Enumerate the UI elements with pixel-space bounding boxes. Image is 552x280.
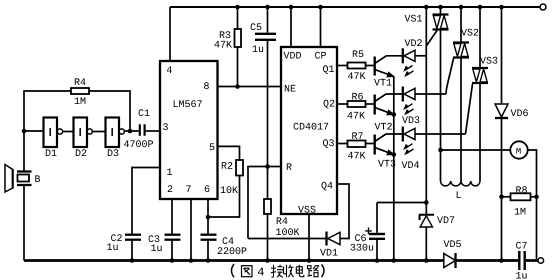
pin Q3 [323, 139, 334, 148]
wire pin6 down [207, 199, 209, 234]
thyristor VS2 [460, 7, 462, 43]
label C4 [223, 237, 234, 244]
resistor R2 [236, 160, 243, 176]
label CD4017 [294, 123, 329, 130]
resistor R3 [235, 29, 242, 47]
wire R3 to pin8 [237, 47, 239, 87]
node R3 top rail junction [235, 5, 240, 10]
caption 4 [258, 268, 264, 276]
wire pin4 of LM567 to top rail [169, 7, 171, 61]
op-amp U1 LM567 body [160, 61, 218, 199]
glyph 接 [271, 265, 283, 278]
wire pin7 down [190, 199, 192, 260]
label VT1 [374, 79, 392, 86]
wire C5 down long vertical [267, 41, 269, 199]
node bus top rail VS1 [438, 5, 443, 10]
transducer B [23, 131, 25, 171]
label 100K [276, 228, 299, 235]
glyph （ [232, 264, 235, 277]
label R3 [220, 31, 231, 38]
inverter D1 [44, 118, 58, 148]
wire B to ground rail [23, 186, 25, 261]
label VD7 [437, 216, 454, 223]
node VDD top rail junction [289, 5, 294, 10]
label VS1 [405, 15, 423, 22]
LED VD2 [402, 48, 404, 63]
wire D3 to C1 [124, 130, 138, 132]
pin 8 [204, 82, 209, 89]
resistor R7 [348, 141, 366, 148]
diode VD5 [444, 254, 456, 268]
wire CP [320, 7, 322, 47]
label C5 [251, 23, 262, 30]
label R4 100K [277, 217, 288, 224]
transistor VT2 [374, 95, 376, 115]
label VD2 [405, 39, 422, 46]
motor M [510, 141, 527, 158]
label 1u C5 [253, 45, 264, 52]
glyph 图 [242, 266, 253, 277]
node VS3 top rail junction [478, 5, 483, 10]
label C1 [139, 109, 150, 116]
label 47K R6 [348, 112, 366, 119]
pin NE [285, 85, 296, 92]
label C6 [355, 234, 366, 241]
capacitor C6 [376, 203, 378, 233]
label D2 [76, 149, 87, 156]
node coil/motor wire junction [438, 148, 443, 153]
node VD6 top rail junction [499, 5, 504, 10]
pin 5 [210, 143, 215, 150]
pin 7 [186, 185, 190, 192]
resistor R8 [499, 195, 504, 200]
capacitor C4 [201, 234, 217, 236]
wire emitter rail [393, 77, 395, 261]
label VD5 [444, 240, 461, 247]
node VT3 emitter junction [392, 152, 397, 157]
label R8 [516, 186, 527, 193]
glyph 收 [284, 265, 294, 278]
diode VD1 [325, 232, 327, 246]
thyristor VS3 [479, 7, 481, 68]
wire R2 to pin6 [208, 176, 240, 218]
label D3 [108, 149, 119, 156]
glyph 路 [308, 265, 319, 277]
label C3 [149, 235, 160, 242]
node gate bus top rail junction [424, 5, 429, 10]
label VD1 [320, 249, 338, 256]
label B [35, 175, 40, 182]
wire pin1 to C2 [132, 168, 160, 234]
wire pin8 to NE [218, 86, 284, 88]
wire VDD [290, 7, 292, 47]
wire C6 to bus junction [377, 202, 426, 204]
wire Q2 to R6 [337, 103, 348, 105]
label 1u C3 [151, 244, 162, 251]
label 1M [75, 97, 86, 104]
glyph ） [322, 265, 325, 278]
wire D1 to D2 [63, 131, 74, 133]
label 2200P [218, 247, 247, 254]
label LM567 [174, 100, 202, 107]
node D3 output junction [128, 129, 133, 134]
label 4700P [124, 140, 153, 147]
label L [457, 191, 461, 198]
resistor R4 100K [264, 199, 271, 214]
wire Q1 to R5 [337, 65, 348, 67]
capacitor C5 [255, 33, 276, 35]
label 10K [221, 186, 238, 193]
label C2 [111, 234, 122, 241]
label R6 [352, 93, 363, 100]
capacitor C1 [139, 124, 141, 136]
wire R pin [248, 167, 281, 239]
pin Q2 [324, 100, 335, 109]
pin R [287, 163, 292, 170]
wire R4 left to input [24, 91, 71, 131]
label VS3 [480, 57, 497, 64]
label C7 [516, 242, 527, 249]
glyph 电 [296, 265, 304, 277]
node CP top rail junction [318, 5, 323, 10]
resistor R4 [71, 88, 89, 94]
wire top rail [170, 6, 540, 8]
label 1u C7 [516, 272, 527, 279]
wire R4 feedback loop [89, 91, 130, 131]
terminal bottom-right [538, 258, 544, 264]
ground rail bottom [24, 259, 444, 262]
thyristor VS1 [440, 7, 442, 15]
label VT2 [375, 123, 392, 130]
pin Q1 [323, 65, 334, 74]
wire VD1 to Q4 [337, 184, 349, 239]
LED VD3 [402, 87, 404, 102]
label R5 [353, 50, 364, 57]
label 1M R8 [515, 208, 526, 215]
pin 6 [205, 185, 210, 192]
wire pin5 to R2 [218, 146, 240, 160]
label 330u [351, 244, 374, 251]
wire R3 stub [237, 7, 239, 29]
label 47K R5 [348, 72, 366, 79]
capacitor C7 [518, 251, 520, 270]
inductor L [440, 150, 442, 181]
label VS2 [461, 29, 478, 36]
label 47K R7 [348, 152, 366, 159]
transistor VT1 [374, 57, 376, 76]
LED VD4 [402, 127, 404, 142]
node C5 top rail junction [265, 5, 270, 10]
wire VS3 gate [466, 84, 473, 134]
wire VT1 collector row1 [386, 55, 402, 57]
wire VS1 gate [426, 31, 437, 47]
IC U2 CD4017 body [281, 47, 337, 214]
wire VSS down [308, 214, 310, 260]
pin 2 [168, 185, 173, 192]
label R2 [222, 162, 233, 169]
label VD4 [402, 161, 420, 168]
inverter D3 [106, 118, 120, 148]
node input junction [22, 129, 27, 134]
label R4 1M [75, 78, 86, 85]
pin 1 [167, 168, 172, 175]
wire C1 to pin3 [146, 130, 160, 132]
transistor VT3 [374, 135, 376, 155]
node pin6/R2 junction [206, 215, 211, 220]
diode VD6 [501, 7, 503, 104]
pin 4 [167, 66, 172, 73]
wire to motor [441, 149, 511, 151]
wire VD1 cathode line [248, 238, 327, 240]
wire pin2 down [171, 199, 173, 234]
caption 图4 接收电路 [232, 264, 325, 277]
capacitor C2 [125, 234, 141, 236]
label VT3 [378, 160, 395, 167]
capacitor C3 [165, 234, 181, 236]
node bus/C6/VD7 junction [424, 200, 429, 205]
wire gate bus vertical [425, 7, 427, 203]
node R/R4 junction [265, 164, 270, 169]
pin 3 [163, 123, 168, 130]
wire D2 to D3 [92, 131, 105, 133]
pin CP [315, 52, 326, 59]
label VD6 [511, 109, 528, 116]
pin VSS [298, 206, 316, 213]
label 47K R3 [215, 41, 233, 48]
inverter D2 [74, 118, 88, 148]
wire input to D1 [24, 130, 44, 132]
zener diode VD7 [425, 203, 427, 216]
node pin8/R3 junction [235, 84, 240, 89]
label D1 [46, 149, 57, 156]
label 1u C2 [107, 243, 118, 250]
wire Q3 to R7 [337, 143, 348, 145]
pin VDD [284, 52, 302, 59]
label M [516, 148, 520, 154]
node VS2 top rail junction [459, 5, 464, 10]
wire VS2 gate [446, 59, 454, 95]
pin Q4 [322, 182, 333, 191]
label VD3 [402, 116, 419, 123]
node VT2 emitter junction [392, 112, 397, 117]
label R7 [352, 132, 362, 139]
resistor R6 [348, 101, 366, 107]
terminal top-right [540, 4, 546, 10]
node rail junctions [130, 258, 135, 263]
wire C5 stub [267, 7, 269, 33]
resistor R5 [348, 63, 366, 69]
